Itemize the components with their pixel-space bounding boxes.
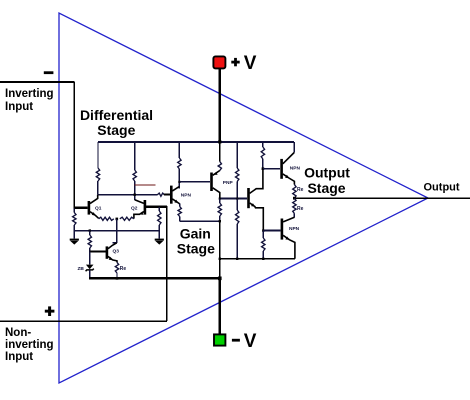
- transistor Q1: [88, 195, 99, 219]
- svg-text:Input: Input: [5, 351, 33, 363]
- wire bottom NPN base: [263, 230, 280, 232]
- label Non-inverting Input: [5, 327, 54, 363]
- wire PNP collector to driver base: [220, 198, 247, 200]
- transistor U1 gain NPN: [170, 186, 180, 204]
- +V terminal red square: [213, 56, 225, 68]
- svg-text:Re: Re: [297, 187, 304, 193]
- ground G2: [155, 239, 164, 245]
- wire zener top: [89, 252, 91, 265]
- label Differential Stage: [80, 107, 153, 138]
- resistor R8 (gain emitter): [178, 207, 181, 217]
- label Q1: [95, 205, 102, 211]
- svg-text:inverting: inverting: [5, 339, 54, 351]
- svg-text:V: V: [244, 331, 257, 352]
- label Gain Stage: [177, 226, 215, 257]
- resistor R11 (bias upper): [236, 168, 239, 182]
- transistor Q6 output NPN bottom: [281, 217, 295, 258]
- junction gain emitter node: [219, 220, 221, 222]
- junction PNP collector R10: [219, 198, 221, 200]
- junction emitter tail node: [116, 218, 119, 221]
- svg-text:Input: Input: [5, 101, 33, 113]
- label Re3: [120, 266, 127, 272]
- resistor R6 (series base): [157, 193, 164, 196]
- wire Q3 base: [90, 251, 106, 253]
- resistor R4 (Q2 base bias): [158, 207, 161, 239]
- wire R16 to bottom collector: [293, 214, 295, 218]
- transistor Q3 (current source): [106, 243, 117, 263]
- wire R11 to driver base line: [236, 182, 238, 199]
- compensation stub wire: [135, 184, 156, 186]
- junction gain collector to PNP base: [178, 181, 180, 183]
- resistor R7 (gain collector load): [178, 158, 181, 169]
- junction driver emitter node: [262, 229, 264, 231]
- junction -V rail: [218, 277, 222, 281]
- wire zener bottom: [89, 270, 91, 278]
- node Q1 collector wire to gain stage: [98, 194, 158, 196]
- junction bias bus to R5: [89, 229, 91, 231]
- label NPN top: [290, 166, 301, 172]
- +V supply wire: [219, 68, 222, 142]
- wire R13 to top base node: [262, 159, 264, 169]
- wire rail to R11: [236, 142, 238, 168]
- svg-text:Stage: Stage: [177, 241, 215, 257]
- label Re top: [297, 187, 304, 193]
- label Output: [424, 182, 460, 194]
- output wire: [294, 197, 470, 199]
- wire rail corner to top NPN collector: [293, 142, 295, 153]
- non-inverting input vertical wire: [166, 206, 168, 321]
- svg-text:V: V: [244, 53, 257, 74]
- resistor R14 (driver emitter): [262, 231, 265, 259]
- label Inverting Input: [5, 88, 54, 113]
- resistor Re3 (Q3 emitter): [115, 262, 118, 273]
- wire rail to R7: [178, 142, 180, 158]
- resistor R1 (Q1 collector load): [96, 168, 99, 181]
- resistor Re2 (Q2 emitter): [120, 217, 134, 220]
- transistor U2 PNP: [210, 171, 220, 199]
- wire R6 to gain base: [164, 194, 171, 196]
- transistor Q2 (mirrored): [134, 200, 146, 219]
- label Q2: [131, 205, 138, 211]
- positive supply rail: [98, 141, 294, 143]
- svg-text:Non-: Non-: [5, 327, 31, 339]
- label PNP: [223, 180, 234, 186]
- resistor R5 (Q3 base feed): [88, 231, 91, 252]
- ground G1: [70, 239, 79, 245]
- label NPN bottom: [289, 226, 300, 232]
- svg-text:Q2: Q2: [131, 205, 138, 211]
- resistor R12 (bias lower): [236, 199, 239, 259]
- svg-text:ZB: ZB: [78, 266, 85, 272]
- wire top NPN base: [263, 168, 280, 170]
- junction bias lower rail: [236, 258, 238, 260]
- non-inverting input wire: [0, 320, 167, 322]
- svg-text:Re: Re: [297, 206, 304, 212]
- wire tail to Q3 collector: [116, 219, 118, 243]
- resistor R16 (Re bottom output): [293, 198, 296, 213]
- svg-text:PNP: PNP: [223, 180, 234, 186]
- svg-text:NPN: NPN: [181, 193, 192, 199]
- inverting input vertical wire: [73, 82, 75, 208]
- label -V: [232, 331, 257, 352]
- resistor R15 (Re top output): [293, 185, 296, 199]
- wire Q2 base: [146, 206, 167, 208]
- wire rail to R9: [219, 142, 221, 162]
- wire R1 to Q1 collector node: [97, 181, 99, 195]
- label Q3: [113, 249, 120, 255]
- zener diode ZD: [86, 265, 94, 272]
- junction -V column rail right: [219, 258, 221, 260]
- resistor R2 (Q2 collector load): [133, 170, 136, 181]
- resistor R13 (output bias): [261, 147, 264, 159]
- label +V: [231, 53, 256, 74]
- wire R7 to collector node: [178, 169, 180, 189]
- junction Q2 collector node: [134, 194, 136, 196]
- label NPN gain: [181, 193, 192, 199]
- label Output Stage: [304, 165, 350, 196]
- svg-text:Q3: Q3: [113, 249, 120, 255]
- svg-text:Output: Output: [424, 182, 460, 194]
- junction top NPN base node: [262, 167, 265, 170]
- negative rail right: [220, 258, 295, 260]
- inverting input wire: [0, 81, 74, 83]
- svg-text:Output: Output: [304, 165, 350, 181]
- plus sign non-inverting: [45, 306, 55, 316]
- junction +V rail: [218, 140, 221, 143]
- wire rail to R13: [262, 142, 264, 147]
- wire -V column upper: [219, 221, 221, 278]
- label Re bottom: [297, 206, 304, 212]
- svg-text:Inverting: Inverting: [5, 88, 54, 100]
- svg-text:NPN: NPN: [290, 166, 301, 172]
- -V supply wire: [219, 278, 222, 334]
- wire tail jog: [112, 242, 117, 244]
- resistor R3 (Q1 base bias): [73, 208, 76, 238]
- wire rail to R2: [134, 142, 136, 170]
- wire Re3 to rail: [116, 273, 118, 278]
- junction R14 rail: [262, 258, 264, 260]
- label ZD: [78, 266, 85, 272]
- svg-text:Stage: Stage: [307, 180, 345, 196]
- wire Q1 base: [74, 207, 87, 209]
- negative rail left: [89, 277, 220, 279]
- svg-text:Re: Re: [120, 266, 127, 272]
- svg-text:NPN: NPN: [289, 226, 300, 232]
- op-amp triangle outline: [59, 13, 428, 383]
- junction output node: [293, 197, 296, 200]
- svg-text:Differential: Differential: [80, 107, 153, 123]
- resistor R10 (PNP collector): [218, 199, 221, 222]
- junction driver base bias: [236, 198, 238, 200]
- wire rail corner to R1: [97, 142, 99, 168]
- svg-text:Stage: Stage: [97, 122, 135, 138]
- junction Re3 rail: [116, 277, 119, 280]
- transistor Q5 output NPN top: [280, 153, 294, 185]
- -V terminal green square: [214, 334, 225, 345]
- svg-text:Q1: Q1: [95, 205, 102, 211]
- svg-text:Gain: Gain: [180, 226, 211, 242]
- wire gain emitter to R8: [179, 204, 181, 207]
- bias bus wire: [74, 230, 159, 232]
- wire gain collector to PNP base: [179, 181, 210, 183]
- minus sign inverting: [44, 71, 54, 74]
- wire R2 to Q2 collector: [134, 181, 136, 200]
- transistor Q4 driver: [247, 169, 263, 231]
- wire gain emitter to -V column: [180, 217, 220, 222]
- resistor Re1 (Q1 emitter): [99, 217, 114, 220]
- resistor R9 (PNP emitter): [218, 162, 221, 171]
